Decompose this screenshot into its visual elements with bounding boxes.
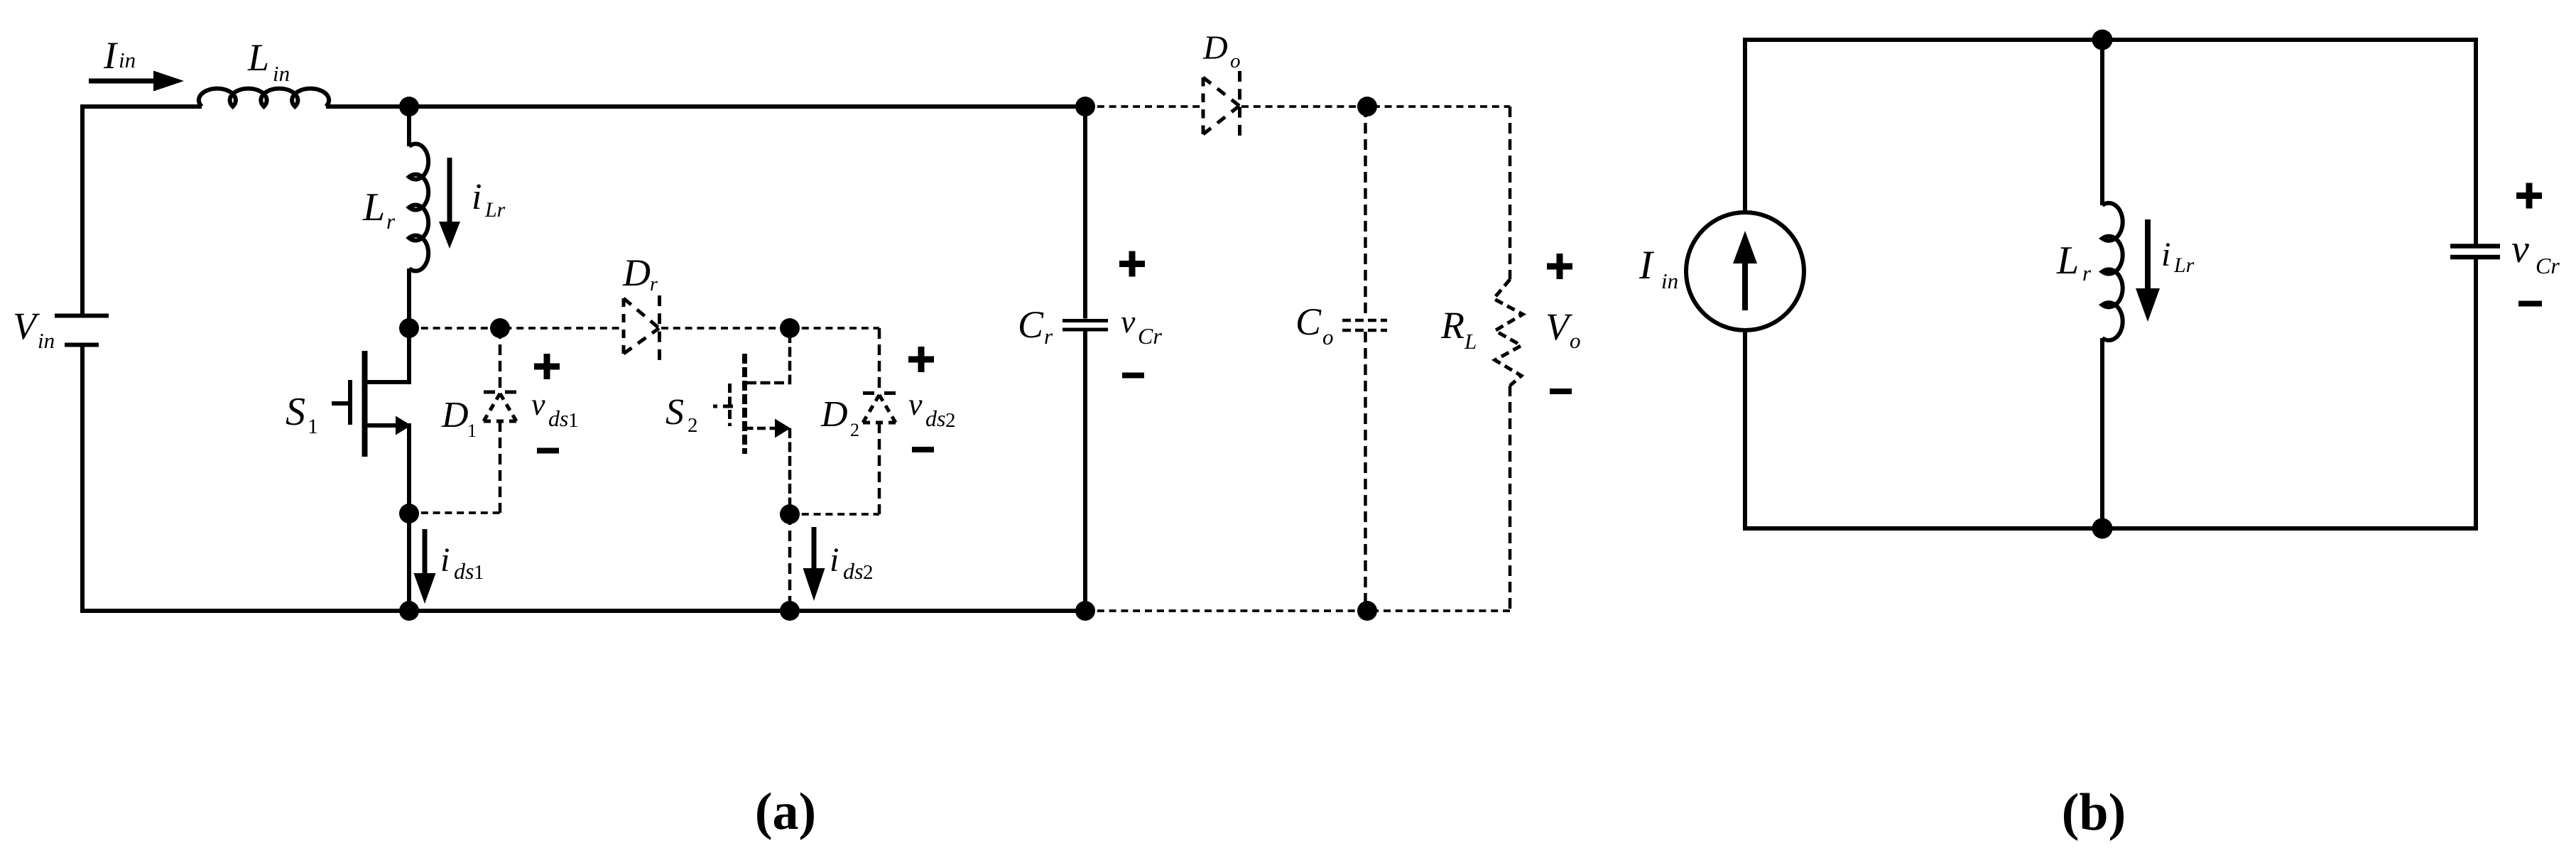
- label Vo: [1545, 305, 1581, 353]
- FIGURE B: [1686, 38, 2500, 531]
- label Do: [1202, 29, 1241, 72]
- svg-text:2: 2: [688, 414, 698, 437]
- svg-text:L: L: [1464, 329, 1477, 354]
- svg-text:(a): (a): [755, 783, 816, 841]
- minus vds2: [912, 447, 934, 452]
- capacitor Cr bottom plate: [1063, 328, 1108, 332]
- diode Dr: [624, 295, 660, 361]
- svg-text:D: D: [622, 251, 651, 294]
- svg-text:o: o: [1322, 325, 1334, 349]
- svg-text:o: o: [1230, 50, 1241, 72]
- svg-text:v: v: [2511, 227, 2529, 271]
- capacitor Co plates dashed: [1342, 320, 1387, 330]
- svg-text:C: C: [1295, 300, 1322, 343]
- wire figB top: [1743, 38, 2478, 42]
- svg-text:1: 1: [308, 415, 318, 438]
- node D1 top: [490, 318, 510, 338]
- svg-text:1: 1: [568, 409, 579, 432]
- wire dashed Dr cathode to S2 drain node: [661, 327, 790, 330]
- svg-text:Lr: Lr: [2173, 254, 2195, 277]
- label S2: [665, 392, 698, 437]
- arrow iLr figure B: [2136, 219, 2160, 322]
- wire bottom solid: [80, 609, 1085, 613]
- transistor S1 gate lead: [332, 401, 348, 406]
- wire dashed D2 bottom lead: [878, 423, 881, 514]
- wire dashed S2 source node to D2 bottom: [790, 513, 879, 516]
- transistor S2 source lead: [745, 427, 778, 430]
- node Co top: [1357, 97, 1377, 116]
- svg-text:v: v: [1121, 303, 1136, 339]
- wire dashed D1 bottom lead: [499, 421, 502, 513]
- svg-text:v: v: [531, 387, 545, 422]
- resistor RL top lead: [1509, 107, 1512, 280]
- capacitor Cr top lead: [1083, 107, 1087, 319]
- label ids1: [440, 541, 484, 584]
- wire dashed S2 source node to bottom wire: [788, 514, 792, 611]
- diode Do: [1203, 71, 1240, 139]
- transistor S1 drain lead: [365, 328, 410, 382]
- svg-text:r: r: [650, 273, 658, 295]
- wire figB right lower: [2474, 259, 2478, 531]
- wire dashed S1 source node to D1: [409, 511, 500, 514]
- current source Iin circle: [1686, 212, 1804, 330]
- transistor S1 source arrow: [396, 416, 411, 435]
- wire dashed S2 node to D2 corner: [790, 327, 879, 330]
- FIGURE A: [55, 89, 1108, 613]
- svg-text:v: v: [908, 387, 923, 422]
- arrow iLr figure A: [439, 158, 460, 249]
- label Vin: [13, 305, 55, 353]
- svg-text:1: 1: [474, 561, 484, 584]
- node figB bottom: [2092, 518, 2113, 539]
- svg-text:i: i: [472, 177, 482, 217]
- wire Lr bottom lead: [407, 268, 411, 328]
- svg-text:L: L: [362, 185, 385, 229]
- transistor S2 gate lead: [713, 405, 733, 408]
- svg-text:Cr: Cr: [1138, 323, 1162, 349]
- node Lr-S1 drain: [399, 318, 419, 338]
- label vCr figure A: [1121, 303, 1162, 349]
- svg-text:I: I: [103, 34, 119, 77]
- inductor Lr: [409, 144, 428, 271]
- svg-text:S: S: [665, 392, 684, 433]
- capacitor Co top lead: [1364, 107, 1367, 318]
- svg-text:I: I: [1638, 243, 1655, 288]
- wire Lr top lead: [407, 107, 411, 146]
- svg-text:ds: ds: [454, 558, 474, 584]
- wire top middle: [326, 104, 1085, 109]
- svg-text:i: i: [830, 541, 839, 579]
- capacitor Cr bottom lead: [1083, 332, 1087, 612]
- transistor S2 dashed: [713, 333, 790, 514]
- svg-text:Cr: Cr: [2536, 253, 2560, 278]
- label Iin figure B: [1638, 243, 1678, 293]
- label Lr figure A: [362, 185, 396, 234]
- label Cr: [1018, 303, 1053, 349]
- transistor S1 gate bar: [348, 380, 352, 425]
- svg-text:2: 2: [850, 420, 859, 440]
- wire left vertical upper: [80, 104, 85, 315]
- resistor RL zigzag: [1494, 280, 1523, 386]
- node S2 drain: [780, 318, 800, 338]
- svg-text:D: D: [1202, 29, 1228, 67]
- wire figB bottom: [1743, 526, 2478, 531]
- svg-text:L: L: [247, 36, 269, 79]
- label vCr figure B: [2511, 227, 2560, 278]
- capacitor Cr top plate: [1063, 319, 1108, 322]
- svg-text:D: D: [820, 394, 848, 435]
- label D1: [441, 395, 477, 441]
- diode D1: [484, 392, 516, 421]
- svg-text:2: 2: [945, 409, 956, 432]
- wire figB left lower: [1743, 330, 1747, 531]
- svg-text:(b): (b): [2062, 783, 2126, 842]
- inductor Lin: [199, 89, 329, 107]
- label vds2: [908, 387, 956, 432]
- svg-text:D: D: [441, 395, 469, 435]
- battery Vin short plate: [65, 343, 99, 347]
- arrow ids2: [803, 527, 825, 601]
- node Cr bottom: [1075, 601, 1095, 621]
- svg-text:o: o: [1570, 328, 1581, 353]
- svg-text:r: r: [2082, 261, 2092, 286]
- wire dashed D1 top lead: [499, 328, 502, 392]
- svg-text:i: i: [2161, 236, 2170, 273]
- wire top-left horizontal: [80, 104, 202, 109]
- svg-text:2: 2: [863, 561, 874, 584]
- node Lin-Lr junction: [399, 97, 419, 116]
- capacitor vCr bottom plate figure B: [2450, 255, 2500, 260]
- resistor RL bottom lead: [1509, 386, 1512, 611]
- svg-text:R: R: [1440, 304, 1464, 347]
- label Co: [1295, 300, 1334, 349]
- svg-text:S: S: [286, 390, 305, 434]
- svg-text:ds: ds: [843, 558, 863, 584]
- svg-text:V: V: [13, 305, 40, 347]
- capacitor Co bottom lead: [1364, 332, 1367, 611]
- wire dashed top Cr to Do: [1085, 105, 1203, 108]
- svg-text:r: r: [386, 209, 396, 234]
- node Co bottom: [1357, 601, 1377, 621]
- transistor S1 channel bar: [362, 351, 368, 457]
- svg-text:ds: ds: [925, 406, 945, 431]
- label vds1: [531, 387, 579, 432]
- wire dashed node A to Dr anode: [409, 327, 624, 330]
- svg-text:C: C: [1018, 303, 1044, 346]
- current source Iin arrow: [1733, 231, 1757, 310]
- transistor S2 channel bar: [742, 354, 747, 454]
- svg-text:in: in: [38, 328, 55, 353]
- transistor S1 source lead: [365, 425, 410, 514]
- label iLr figure B: [2161, 236, 2195, 277]
- transistor S2 gate bar: [728, 384, 732, 426]
- label iLr figure A: [472, 177, 506, 222]
- node figB top: [2092, 30, 2113, 50]
- wire left vertical lower: [80, 345, 85, 614]
- battery Vin long plate: [55, 314, 109, 318]
- svg-text:ds: ds: [548, 406, 568, 431]
- node S2 bottom: [780, 601, 800, 621]
- svg-text:i: i: [440, 541, 450, 579]
- minus vds1: [537, 448, 559, 454]
- wire dashed D2 top lead: [878, 328, 881, 392]
- wire dashed Do to RL corner: [1241, 105, 1510, 108]
- diode D2: [863, 393, 896, 423]
- wire figB Lr bottom lead: [2100, 338, 2104, 528]
- node S1 bottom: [399, 601, 419, 621]
- label Dr: [622, 251, 658, 295]
- arrow ids1: [414, 529, 436, 604]
- label Iin: [103, 34, 136, 77]
- minus vCr figure A: [1122, 373, 1144, 379]
- wire dashed bottom Cr to RL corner: [1085, 609, 1510, 612]
- node S2 source: [780, 504, 800, 524]
- svg-text:in: in: [273, 61, 290, 86]
- node dots figure A: [399, 97, 1377, 621]
- svg-text:1: 1: [467, 420, 477, 441]
- label Lr figure B: [2056, 239, 2092, 286]
- node Cr top: [1075, 97, 1095, 116]
- svg-text:L: L: [2056, 239, 2079, 283]
- dashed nets of figure A: [409, 107, 1510, 611]
- transistor S2 drain lead: [745, 333, 790, 383]
- plus Vo: [1547, 254, 1572, 279]
- plus vds1: [534, 354, 560, 379]
- inductor Lr figure B: [2102, 203, 2123, 340]
- wire S1 source to bottom: [407, 514, 411, 611]
- svg-text:in: in: [119, 48, 136, 72]
- label S1: [286, 390, 318, 438]
- svg-text:Lr: Lr: [484, 198, 506, 222]
- minus Vo: [1550, 389, 1572, 394]
- label ids2: [830, 541, 874, 584]
- plus vCr figure A: [1119, 251, 1145, 277]
- transistor S2 source arrow: [775, 419, 790, 438]
- plus vCr figure B: [2516, 183, 2542, 209]
- svg-text:r: r: [1044, 324, 1053, 349]
- label RL: [1440, 304, 1477, 354]
- label Lin: [247, 36, 290, 86]
- svg-text:in: in: [1661, 268, 1678, 293]
- wire figB Lr top lead: [2100, 40, 2104, 205]
- wire figB right upper: [2474, 38, 2478, 244]
- wire figB left upper: [1743, 38, 1747, 213]
- plus vds2: [908, 347, 934, 372]
- arrow Iin: [89, 71, 184, 92]
- minus vCr figure B: [2518, 301, 2542, 307]
- wire dashed S2 source down: [788, 428, 792, 514]
- label D2: [820, 394, 859, 440]
- node S1 source: [399, 504, 419, 523]
- capacitor vCr top plate figure B: [2450, 244, 2500, 249]
